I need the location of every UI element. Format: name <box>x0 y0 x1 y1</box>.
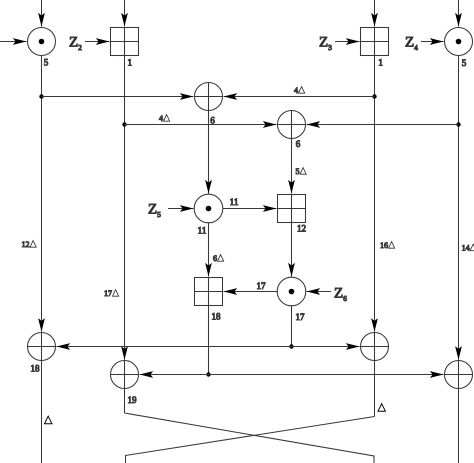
label Delta (XC output) <box>45 416 52 424</box>
svg-text:Z5: Z5 <box>148 202 161 220</box>
wire: into XOR XB from right <box>307 124 459 126</box>
label 12Delta <box>22 240 37 249</box>
label 5Delta <box>296 167 307 176</box>
label 4Delta (right feed of XA) <box>294 86 305 95</box>
multiplier U3 (mod 2^16+1) <box>194 194 223 223</box>
wire: crossover XD output to bottom left <box>126 417 375 463</box>
wire: A2 output down to XOR XD <box>374 56 376 332</box>
xor XB <box>278 111 306 139</box>
wire: XD output down to crossover bend <box>374 361 376 417</box>
svg-text:18: 18 <box>212 312 222 322</box>
svg-text:17: 17 <box>296 312 306 322</box>
svg-text:17: 17 <box>257 281 267 291</box>
wire: A4 output down to fan-out node <box>208 306 210 375</box>
wire: into XOR XB from left <box>125 124 277 126</box>
label 16Delta <box>380 241 395 250</box>
node: junction A2 column to XOR XA feed <box>372 94 376 98</box>
wire: crossover XE output to bottom right <box>125 413 375 463</box>
wire: XF output to bottom edge <box>458 389 460 463</box>
wire: Z2 key input arrow <box>85 41 110 43</box>
svg-text:Z6: Z6 <box>334 286 347 304</box>
svg-text:4: 4 <box>159 114 163 123</box>
xor XE (output word 2) <box>111 361 139 389</box>
wire: U4 output left into adder A4 <box>224 291 278 293</box>
node: U4 output junction <box>289 344 293 348</box>
label 17Delta <box>104 289 119 298</box>
wire: U2 output down to XOR XF <box>458 56 460 360</box>
svg-text:14: 14 <box>462 244 470 253</box>
svg-text:19: 19 <box>128 395 138 405</box>
svg-text:6: 6 <box>296 139 301 149</box>
svg-text:12: 12 <box>22 240 30 249</box>
wire: XOR XA output down into multiplier U3 <box>208 111 210 194</box>
node: junction U1 column to XOR XA feed <box>39 94 43 98</box>
xor XA <box>195 83 223 111</box>
wire: Z5 key input arrow <box>168 208 194 210</box>
wire: Z4 key input arrow <box>421 41 444 43</box>
label Delta (XD output) <box>378 404 385 412</box>
svg-text:11: 11 <box>230 197 239 207</box>
svg-text:Z3: Z3 <box>319 35 332 53</box>
wire: A1 output down to XOR XE <box>124 56 126 360</box>
wire: U4 node into XOR XD <box>292 346 360 348</box>
wire: XE output down to crossover bend <box>124 389 126 414</box>
svg-text:11: 11 <box>198 226 207 236</box>
multiplier U1 (mod 2^16+1) <box>28 28 56 56</box>
wire: A4 node into XOR XF <box>209 374 444 376</box>
xor XF (output word 4) <box>445 361 473 389</box>
multiplier U2 (mod 2^16+1) <box>445 28 473 56</box>
wire: top input X4 <box>458 0 460 27</box>
wire: top input X1 <box>41 0 43 27</box>
wire: A3 output down into multiplier U4 <box>291 223 293 277</box>
svg-text:17: 17 <box>104 289 112 298</box>
wire: left input Z1 <box>0 41 27 43</box>
wire: into XOR XA from left <box>42 96 194 98</box>
wire: top input X2 <box>124 0 126 27</box>
svg-text:Z4: Z4 <box>405 35 418 53</box>
adder A4 (box with cross) <box>195 278 223 306</box>
node: A4 output junction <box>206 372 210 376</box>
svg-text:16: 16 <box>380 241 388 250</box>
svg-text:Z2: Z2 <box>69 35 82 53</box>
node: junction U2 column to XOR XB feed <box>456 122 460 126</box>
node: junction A1 column to XOR XB feed <box>122 122 126 126</box>
wire: XC output to bottom edge <box>41 361 43 463</box>
wire: U4 node into XOR XC <box>57 346 292 348</box>
multiplier U4 (mod 2^16+1) <box>277 277 306 306</box>
svg-text:1: 1 <box>378 58 383 68</box>
svg-text:6: 6 <box>213 254 217 263</box>
label 14Delta <box>462 244 474 253</box>
adder A1 (box with cross) <box>111 28 139 56</box>
adder A3 (box with cross) <box>278 195 306 223</box>
wire: into XOR XA from right <box>224 96 375 98</box>
wire: A4 node into XOR XE <box>140 374 209 376</box>
wire: U4 output down to fan-out node <box>291 306 293 347</box>
wire: Z3 key input arrow <box>335 41 360 43</box>
label 4Delta (left feed of XB) <box>159 114 170 123</box>
xor XC (output word 1) <box>28 333 56 361</box>
adder A2 (box with cross) <box>361 28 389 56</box>
wire: U3 output down into adder A4 <box>208 223 210 277</box>
wire: top input X3 <box>374 0 376 27</box>
svg-text:5: 5 <box>44 58 49 68</box>
wire: Z6 key input arrow <box>307 291 332 293</box>
svg-text:4: 4 <box>294 86 298 95</box>
svg-text:5: 5 <box>296 167 300 176</box>
wire: U3 output right into adder A3 <box>223 208 277 210</box>
label 6Delta <box>213 254 224 263</box>
svg-text:5: 5 <box>462 58 467 68</box>
wire: U1 output down to XOR XC <box>41 56 43 332</box>
svg-text:12: 12 <box>297 224 306 234</box>
wire: XOR XB output down into adder A3 <box>291 139 293 194</box>
xor XD (output word 3) <box>361 333 389 361</box>
svg-text:18: 18 <box>31 364 41 374</box>
svg-text:1: 1 <box>128 58 133 68</box>
